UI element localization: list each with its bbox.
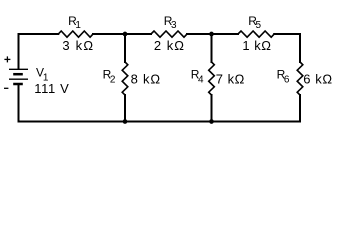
resistor R1: [58, 31, 93, 37]
wire R2 to bottom rail: [124, 95, 126, 122]
svg-text:8 kΩ: 8 kΩ: [131, 71, 161, 86]
wire R4 to bottom rail: [211, 95, 213, 122]
svg-text:111 V: 111 V: [34, 81, 69, 96]
svg-text:1 kΩ: 1 kΩ: [242, 38, 271, 53]
node B dot bottom: [209, 119, 214, 124]
svg-text:7 kΩ: 7 kΩ: [216, 71, 245, 86]
svg-text:6 kΩ: 6 kΩ: [303, 71, 332, 86]
resistor R6: [297, 62, 303, 95]
resistor R4: [209, 62, 215, 95]
node A dot top: [123, 32, 128, 37]
svg-text:3 kΩ: 3 kΩ: [62, 38, 94, 53]
resistor R2: [122, 62, 128, 95]
wire R1 to R3: [93, 33, 151, 35]
wire right-bottom segment: [19, 95, 301, 122]
node B dot top: [209, 32, 214, 37]
resistor R3: [151, 31, 187, 37]
battery minus sign: [4, 87, 8, 89]
wire top-left segment: [19, 34, 59, 69]
battery plus sign: [4, 56, 10, 62]
wire top-right corner down: [274, 34, 300, 62]
wire R3 to R5: [187, 33, 238, 35]
wire node B drop: [211, 34, 213, 62]
node A dot bottom: [123, 119, 128, 124]
battery V1 plates: [9, 69, 28, 84]
svg-text:2 kΩ: 2 kΩ: [154, 38, 185, 53]
resistor R5: [238, 31, 274, 37]
wire battery-bottom to bottom rail: [18, 84, 20, 122]
wire node A drop: [124, 34, 126, 62]
